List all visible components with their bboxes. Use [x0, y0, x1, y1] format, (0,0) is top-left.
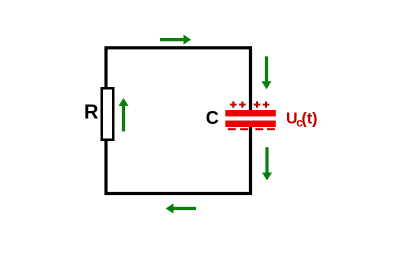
minus charge 4 [267, 128, 275, 130]
svg-text:C: C [206, 108, 219, 128]
plus charge 4 [263, 101, 270, 107]
current arrow right upper (downward) [262, 56, 272, 89]
plus charge 2 [239, 101, 246, 107]
capacitor gap white-out [246, 116, 256, 122]
label Uc(t) [286, 110, 317, 129]
current arrow right lower (downward) [262, 147, 272, 180]
resistor R [102, 88, 114, 140]
current arrow left (upward) [119, 98, 129, 131]
plus charge 3 [254, 101, 261, 107]
svg-text:R: R [84, 102, 99, 124]
minus charge 3 [255, 128, 263, 130]
wire loop [106, 48, 251, 194]
capacitor C bottom plate [225, 121, 275, 128]
svg-text:(t): (t) [302, 110, 318, 127]
minus charge 2 [240, 128, 248, 130]
current arrow top (rightward) [160, 35, 191, 45]
capacitor C top plate [225, 110, 275, 116]
minus charge 1 [228, 128, 236, 130]
plus charge 1 [230, 101, 237, 107]
current arrow bottom (leftward) [166, 204, 196, 214]
